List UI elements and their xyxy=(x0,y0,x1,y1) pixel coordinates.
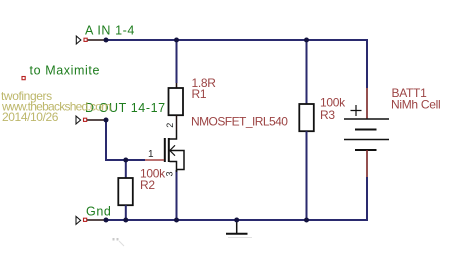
svg-text:R2: R2 xyxy=(140,178,155,192)
svg-text:Gnd: Gnd xyxy=(86,205,111,219)
pin connector A IN 1-4 xyxy=(76,36,106,44)
junction node top rail / R1 xyxy=(174,38,179,43)
wire R3 branch from top rail xyxy=(306,40,308,98)
svg-text:2014/10/26: 2014/10/26 xyxy=(2,110,59,124)
faint artifact marks xyxy=(113,238,125,246)
transistor Q1 NMOSFET_IRL540 xyxy=(145,130,184,172)
svg-text:NiMh Cell: NiMh Cell xyxy=(391,98,440,112)
junction node top rail / A IN pin xyxy=(104,38,109,43)
wire MOSFET source to rail xyxy=(176,170,178,220)
junction node bottom rail / source xyxy=(174,218,179,223)
wire top rail net xyxy=(106,39,367,41)
junction node Gnd pin xyxy=(104,218,109,223)
wire battery bottom drop xyxy=(307,177,368,220)
wire D OUT net down and to gate xyxy=(106,120,145,160)
wire R1 branch from top rail xyxy=(176,40,178,83)
wire battery top drop xyxy=(366,39,368,88)
svg-text:2: 2 xyxy=(165,123,175,128)
wire bottom rail net xyxy=(106,219,367,221)
junction node gate / R2 xyxy=(123,158,128,163)
svg-text:A IN 1-4: A IN 1-4 xyxy=(85,24,135,38)
resistor R1 xyxy=(169,83,184,130)
svg-text:R3: R3 xyxy=(320,108,335,122)
junction node bottom rail / ground xyxy=(234,218,239,223)
wire R2 top branch xyxy=(125,160,127,173)
pin connector Gnd xyxy=(76,216,106,224)
battery BATT1 xyxy=(344,88,389,177)
junction node bottom rail / R3 battery xyxy=(304,218,309,223)
resistor R2 xyxy=(118,173,133,214)
junction node bottom rail / R2 xyxy=(123,218,128,223)
svg-text:3: 3 xyxy=(165,171,175,176)
ground symbol xyxy=(226,221,252,238)
wire R3 bottom to rail xyxy=(306,139,308,221)
pin connector D OUT 14-17 xyxy=(76,116,106,124)
junction node top rail / R3 xyxy=(304,38,309,43)
junction node D OUT pin xyxy=(104,118,109,123)
svg-text:to Maximite: to Maximite xyxy=(30,64,101,78)
svg-text:NMOSFET_IRL540: NMOSFET_IRL540 xyxy=(191,115,288,129)
label to Maximite with origin marker xyxy=(22,64,100,80)
resistor R3 xyxy=(299,98,314,139)
svg-text:R1: R1 xyxy=(192,87,207,101)
svg-text:1: 1 xyxy=(148,149,154,160)
wire R2 bottom to rail xyxy=(125,213,127,220)
